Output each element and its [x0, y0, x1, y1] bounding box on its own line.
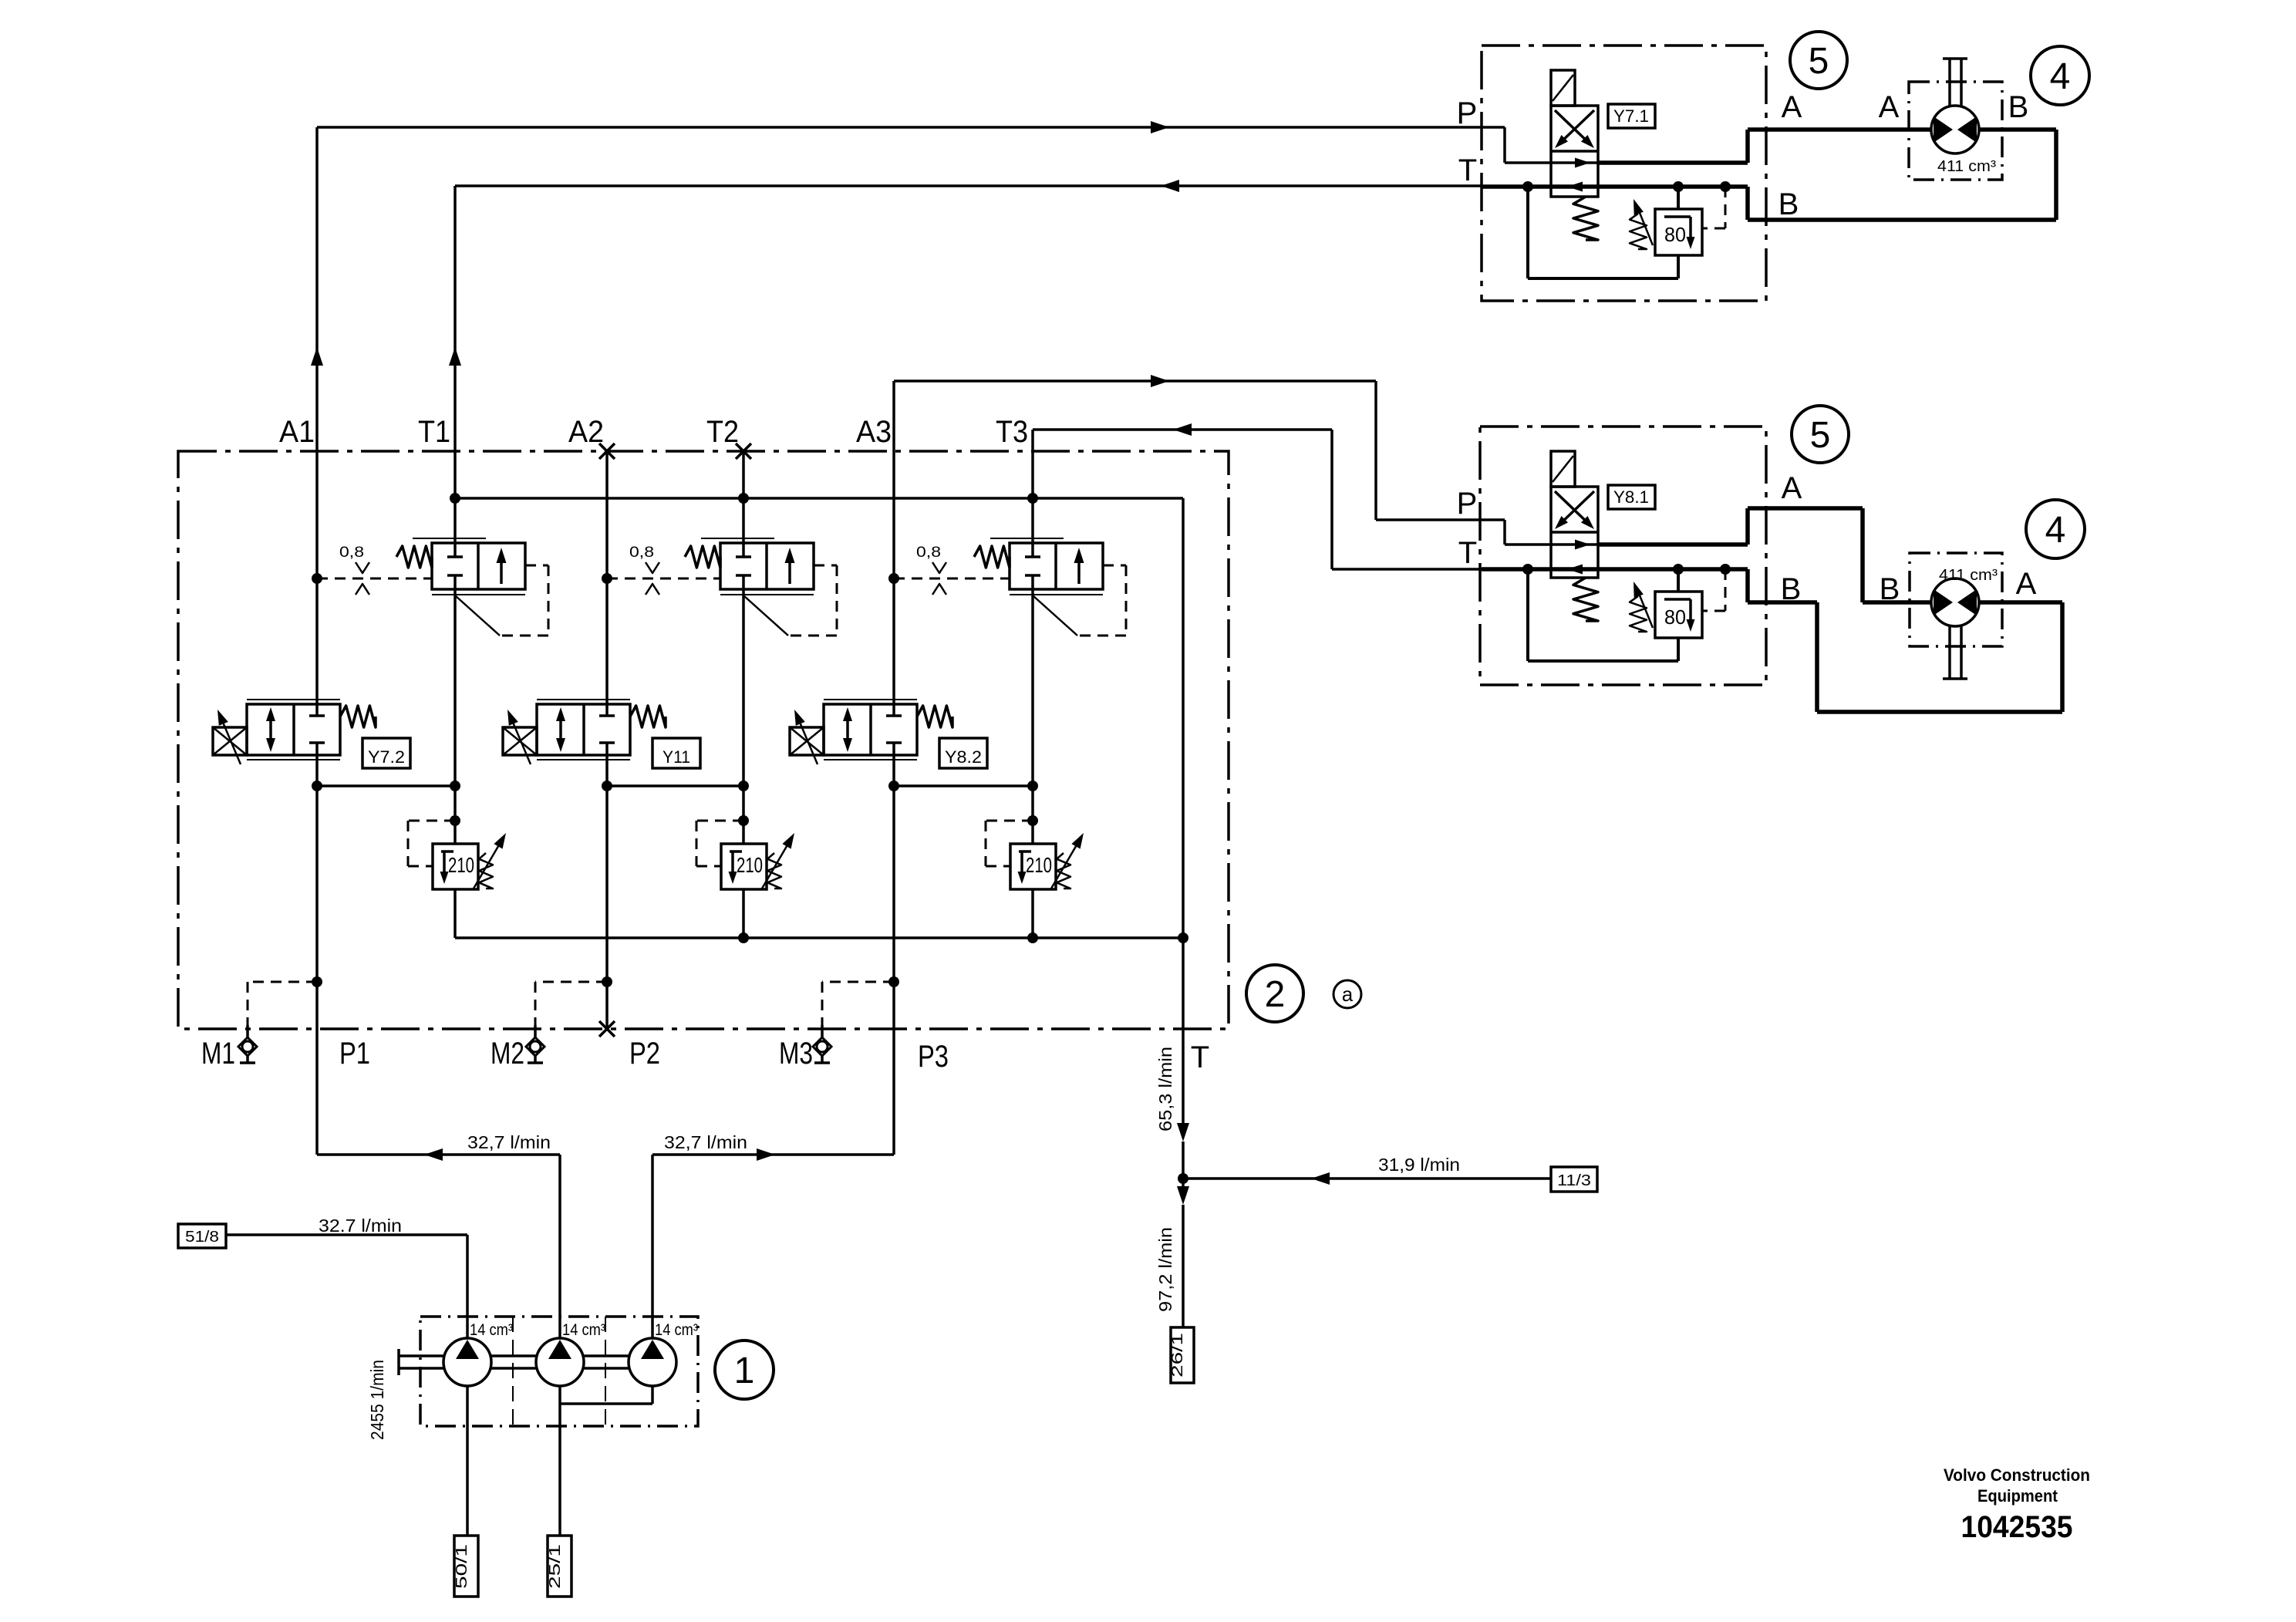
- measuring port M3: [813, 976, 899, 1063]
- footer drawing number 1042535: [1961, 1510, 2073, 1544]
- wire B return from motor: [1725, 569, 2062, 712]
- pilot check valve 0,8 bar section 2: [602, 545, 720, 595]
- wire A1/P1 vertical line: [311, 127, 323, 1155]
- relief valve 80: [1630, 569, 1725, 638]
- port label P1: [339, 1037, 370, 1071]
- wire T line through valve: [1482, 181, 1731, 192]
- svg-text:50/1: 50/1: [453, 1544, 470, 1589]
- flow label 32,7 l/min (P1): [467, 1132, 551, 1152]
- hydraulic motor 4 upper: [1909, 59, 2002, 180]
- wire from 11/3: [1183, 1172, 1551, 1185]
- svg-text:0,8: 0,8: [339, 545, 364, 561]
- callout circle a: [1333, 980, 1361, 1008]
- wire T return from upper valve 5 (to T1): [455, 180, 1482, 192]
- wire A3-T3 connector: [888, 781, 1038, 791]
- svg-text:210: 210: [1026, 853, 1052, 877]
- wire P feed to lower valve 5 (from A3): [894, 375, 1551, 545]
- flow label 32,7 l/min (P3): [664, 1132, 747, 1152]
- svg-text:4: 4: [2050, 56, 2071, 97]
- displacement label 14 cm³ pump 1: [470, 1321, 513, 1339]
- flow label 32.7 l/min (51/8): [319, 1216, 402, 1236]
- label box Y7.1: [1608, 104, 1655, 128]
- svg-text:51/8: 51/8: [185, 1229, 219, 1246]
- svg-text:411 cm³: 411 cm³: [1937, 158, 1996, 175]
- svg-text:Y8.1: Y8.1: [1613, 487, 1649, 507]
- label box Y11: [652, 738, 700, 768]
- plug X at port T2 on top border: [736, 443, 751, 459]
- wire T1 vertical line: [449, 186, 461, 938]
- wire T line through valve: [1482, 564, 1731, 575]
- port label M2: [491, 1037, 524, 1071]
- port label A at motor upper: [1879, 90, 1900, 124]
- svg-text:Y7.1: Y7.1: [1613, 106, 1649, 126]
- wire pump 2 to P1: [317, 1148, 560, 1340]
- unloading valve section 2 on T2: [685, 538, 837, 636]
- wire P through valve: [1551, 540, 1598, 550]
- svg-text:32,7 l/min: 32,7 l/min: [664, 1132, 747, 1152]
- port label B at motor upper: [2008, 90, 2029, 124]
- svg-text:97,2 l/min: 97,2 l/min: [1155, 1227, 1175, 1312]
- wire tank bus bottom: [455, 932, 1188, 943]
- svg-text:Y7.2: Y7.2: [368, 747, 405, 767]
- hydraulic motor 4 lower: [1910, 553, 2002, 679]
- valve 5 lower dash-dot enclosure: [1480, 427, 1766, 685]
- relief valve 210 section 3: [986, 815, 1084, 889]
- svg-text:T: T: [1458, 153, 1477, 187]
- port label P lower: [1457, 487, 1478, 521]
- wire A1-T1 connector: [312, 781, 460, 791]
- unloading valve section 3 on T3: [974, 538, 1126, 636]
- wire pump 2 - pump 3 interconnect: [560, 1386, 652, 1536]
- displacement label 14 cm³ pump 3: [655, 1321, 698, 1339]
- port label T1: [418, 415, 450, 449]
- svg-text:a: a: [1342, 983, 1354, 1006]
- svg-text:210: 210: [448, 853, 474, 877]
- svg-text:A: A: [1782, 90, 1802, 124]
- svg-text:31,9 l/min: 31,9 l/min: [1378, 1155, 1460, 1175]
- svg-text:32,7 l/min: 32,7 l/min: [467, 1132, 551, 1152]
- port label M3: [779, 1037, 813, 1071]
- svg-text:B: B: [2008, 90, 2029, 124]
- port label B upper boundary: [1778, 187, 1799, 221]
- flow label 97,2 l/min: [1155, 1227, 1175, 1312]
- svg-text:M2: M2: [491, 1037, 524, 1071]
- reference box 11/3: [1551, 1167, 1597, 1192]
- port label P3: [918, 1040, 949, 1074]
- port label A3: [856, 415, 892, 449]
- svg-text:A2: A2: [568, 415, 604, 449]
- svg-text:26/1: 26/1: [1169, 1333, 1186, 1378]
- label box Y7.2: [362, 738, 410, 768]
- port label T2: [706, 415, 739, 449]
- svg-text:B: B: [1781, 572, 1802, 606]
- pump 1: [443, 1338, 491, 1386]
- svg-text:B: B: [1778, 187, 1799, 221]
- pilot check valve 0,8 bar section 3: [888, 545, 1010, 595]
- displacement label 14 cm³ pump 2: [562, 1321, 605, 1339]
- wire 51/8 to pump 1: [226, 1235, 467, 1340]
- wire pump 3 to P3: [652, 1148, 894, 1340]
- wire A3/P3 vertical line: [892, 381, 895, 1155]
- svg-text:T: T: [1191, 1040, 1209, 1074]
- svg-text:11/3: 11/3: [1557, 1172, 1591, 1189]
- wire relief return loop: [1528, 187, 1678, 278]
- svg-text:0,8: 0,8: [629, 545, 654, 561]
- svg-text:2: 2: [1265, 974, 1286, 1015]
- wire tank line T to 26/1: [1177, 938, 1189, 1327]
- svg-text:T3: T3: [996, 415, 1028, 449]
- measuring port M2: [526, 976, 612, 1063]
- flow label 65,3 l/min: [1155, 1047, 1175, 1131]
- svg-text:411 cm³: 411 cm³: [1939, 567, 1998, 584]
- wire relief return loop: [1528, 569, 1678, 661]
- svg-text:Volvo Construction: Volvo Construction: [1944, 1465, 2090, 1485]
- svg-text:P1: P1: [339, 1037, 370, 1071]
- wire A2-T2 connector: [602, 781, 749, 791]
- svg-text:5: 5: [1810, 415, 1831, 456]
- port label T lower: [1458, 536, 1477, 570]
- svg-text:P: P: [1457, 487, 1478, 521]
- valve 5 upper dash-dot enclosure: [1482, 46, 1766, 301]
- svg-text:14 cm³: 14 cm³: [470, 1321, 513, 1339]
- pump unit 1 dash-dot enclosure: [420, 1317, 698, 1426]
- speed label 2455 1/min: [367, 1360, 387, 1440]
- svg-text:14 cm³: 14 cm³: [655, 1321, 698, 1339]
- relief valve 210 section 1: [408, 815, 506, 889]
- pump 3: [629, 1338, 676, 1386]
- port label P upper: [1457, 96, 1478, 130]
- svg-text:80: 80: [1664, 605, 1686, 629]
- callout circle 5 upper: [1790, 32, 1847, 89]
- wire T return from lower valve 5 (to T3): [1033, 423, 1482, 569]
- wire A to motor: [1598, 130, 1931, 163]
- callout circle 4 lower: [2026, 500, 2085, 558]
- port label B lower boundary: [1781, 572, 1802, 606]
- svg-text:5: 5: [1809, 41, 1829, 82]
- solenoid valve Y8.2 section 3 on A3: [790, 700, 952, 764]
- solenoid valve Y7.1: [1551, 70, 1598, 240]
- svg-text:P2: P2: [629, 1037, 660, 1071]
- flow label 31,9 l/min: [1378, 1155, 1460, 1175]
- svg-text:65,3 l/min: 65,3 l/min: [1155, 1047, 1175, 1131]
- valve block 2 dash-dot enclosure: [178, 451, 1229, 1029]
- svg-text:T2: T2: [706, 415, 739, 449]
- svg-text:0,8: 0,8: [916, 545, 941, 561]
- svg-text:Y8.2: Y8.2: [945, 747, 982, 767]
- wire tank bus top: [450, 493, 1183, 504]
- svg-text:M1: M1: [201, 1037, 235, 1071]
- svg-text:A3: A3: [856, 415, 892, 449]
- plug X at port A2 on top border: [599, 443, 615, 459]
- solenoid valve Y7.2 section 1 on A1: [213, 700, 376, 764]
- footer Volvo Construction Equipment: [1944, 1465, 2090, 1506]
- port label B at motor lower: [1880, 572, 1900, 606]
- reference box 50/1: [453, 1536, 478, 1597]
- reference box 26/1: [1169, 1327, 1194, 1383]
- wire A2 vertical line: [605, 451, 609, 1029]
- relief valve 210 section 2: [696, 815, 794, 889]
- solenoid valve Y11 section 2 on A2: [503, 700, 666, 764]
- port label M1: [201, 1037, 235, 1071]
- unloading valve section 1 on T1: [396, 538, 548, 636]
- svg-text:Y11: Y11: [663, 747, 690, 767]
- svg-text:A: A: [1879, 90, 1900, 124]
- port label T upper: [1458, 153, 1477, 187]
- svg-text:1042535: 1042535: [1961, 1510, 2073, 1544]
- relief valve 80: [1630, 187, 1725, 255]
- svg-text:210: 210: [737, 853, 763, 877]
- svg-text:A1: A1: [279, 415, 315, 449]
- port label A lower boundary: [1782, 471, 1802, 505]
- solenoid valve Y8.1: [1551, 451, 1598, 621]
- reference box 25/1: [547, 1536, 571, 1597]
- label box Y8.1: [1608, 485, 1655, 509]
- wire A to motor: [1598, 508, 1931, 602]
- svg-text:4: 4: [2045, 510, 2066, 551]
- svg-text:80: 80: [1664, 223, 1686, 246]
- measuring port M1: [238, 976, 322, 1063]
- svg-text:14 cm³: 14 cm³: [562, 1321, 605, 1339]
- wire tank collector vertical: [1182, 498, 1185, 938]
- port label T bottom: [1191, 1040, 1209, 1074]
- wire pump 1 suction to 50/1: [466, 1386, 469, 1536]
- port label A at motor lower: [2016, 567, 2037, 601]
- callout circle 1: [715, 1340, 774, 1399]
- svg-text:2455 1/min: 2455 1/min: [367, 1360, 387, 1440]
- svg-text:P3: P3: [918, 1040, 949, 1074]
- svg-text:Equipment: Equipment: [1977, 1486, 2058, 1506]
- callout circle 4 upper: [2031, 46, 2089, 105]
- svg-text:1: 1: [734, 1351, 755, 1391]
- svg-text:32.7 l/min: 32.7 l/min: [319, 1216, 402, 1236]
- port label A1: [279, 415, 315, 449]
- wire P feed to upper valve 5 (from A1): [317, 121, 1551, 163]
- port label P2: [629, 1037, 660, 1071]
- wire T3 vertical line: [1031, 430, 1034, 938]
- pump drive shaft: [399, 1349, 652, 1375]
- pilot check valve 0,8 bar section 1: [312, 545, 432, 595]
- wire B return from motor: [1725, 130, 2056, 220]
- label box Y8.2: [939, 738, 987, 768]
- plug X at port P2 on bottom border: [599, 1021, 615, 1037]
- svg-text:M3: M3: [779, 1037, 813, 1071]
- svg-text:A: A: [2016, 567, 2037, 601]
- port label A upper boundary: [1782, 90, 1802, 124]
- svg-text:P: P: [1457, 96, 1478, 130]
- port label T3: [996, 415, 1028, 449]
- svg-text:25/1: 25/1: [547, 1544, 564, 1589]
- svg-text:A: A: [1782, 471, 1802, 505]
- pump 2: [536, 1338, 584, 1386]
- callout circle 2: [1246, 965, 1303, 1022]
- svg-text:T: T: [1458, 536, 1477, 570]
- wire P through valve: [1551, 158, 1598, 168]
- reference box 51/8: [178, 1224, 226, 1248]
- svg-text:T1: T1: [418, 415, 450, 449]
- callout circle 5 lower: [1792, 406, 1849, 463]
- svg-text:B: B: [1880, 572, 1900, 606]
- wire T2 vertical line: [742, 451, 745, 938]
- port label A2: [568, 415, 604, 449]
